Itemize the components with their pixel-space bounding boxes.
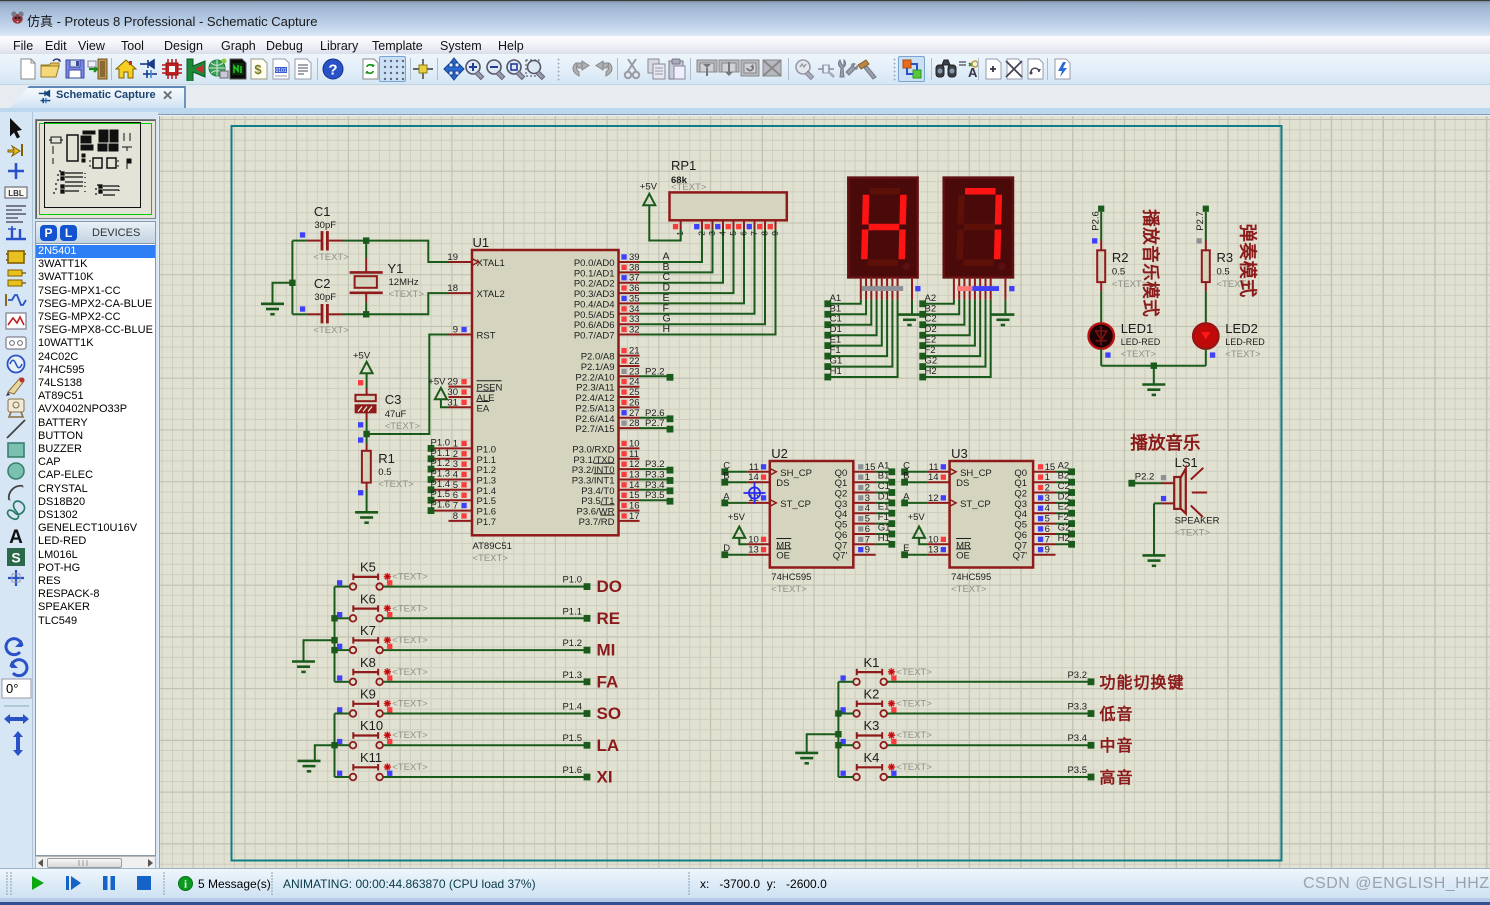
wire led ground rail (1101, 365, 1206, 367)
svg-text:Q0: Q0 (835, 468, 848, 479)
crystal Y1 (350, 258, 425, 303)
wire Q5 to F2 (1056, 523, 1072, 525)
node C2/Y1 junction (363, 311, 369, 317)
svg-text:<TEXT>: <TEXT> (385, 421, 421, 432)
svg-text:<TEXT>: <TEXT> (392, 667, 428, 678)
terminal P3.3 (key) (1067, 702, 1094, 717)
U2 pin 1 Q1 (835, 472, 876, 489)
svg-text:K6: K6 (360, 591, 376, 606)
wire K3 to P3.4 (887, 744, 1091, 746)
wire K1 to P3.2 (887, 681, 1091, 683)
terminal B2 (919, 303, 936, 317)
svg-text:LED-RED: LED-RED (1121, 337, 1161, 347)
wire LED1 to ground rail (1100, 349, 1102, 366)
wire net F to RP1 (640, 229, 755, 314)
svg-text:<TEXT>: <TEXT> (473, 553, 509, 564)
wire K5 to bus (335, 586, 350, 588)
svg-text:3: 3 (707, 231, 717, 236)
svg-text:?: ? (328, 62, 337, 79)
svg-text:3: 3 (453, 459, 458, 470)
power +5V U2 MR (728, 512, 746, 538)
terminal P1.3 (428, 469, 450, 483)
svg-text:P3.4/T0: P3.4/T0 (581, 486, 614, 497)
terminal D2 (U3) (1058, 491, 1075, 506)
svg-text:12: 12 (928, 493, 939, 504)
svg-text:A: A (903, 491, 910, 502)
svg-text:10: 10 (629, 438, 640, 449)
svg-text:OE: OE (776, 551, 790, 562)
svg-text:30pF: 30pF (314, 220, 336, 231)
svg-text:P3.5/T1: P3.5/T1 (581, 496, 614, 507)
svg-text:10: 10 (748, 534, 759, 545)
terminal P3.2 (key) (1067, 670, 1094, 685)
display D1 common cathode pin (911, 277, 913, 299)
svg-text:P2.4/A12: P2.4/A12 (575, 393, 614, 404)
svg-text:14: 14 (629, 480, 640, 491)
svg-text:C1: C1 (314, 204, 331, 219)
svg-text:G1: G1 (830, 356, 843, 367)
U1 pin 31 EA (447, 397, 489, 414)
terminal A2 (U3) (1058, 460, 1075, 475)
terminal A1 (824, 293, 841, 307)
U1 pin 7 P1.6 (434, 501, 496, 518)
svg-text:DO: DO (597, 577, 623, 596)
U1 pin 28 P2.7/A15 (575, 418, 639, 435)
terminal B (U2) (721, 471, 729, 486)
svg-text:U2: U2 (771, 446, 788, 461)
svg-text:RP1: RP1 (671, 158, 696, 173)
svg-text:F2: F2 (925, 345, 936, 356)
svg-text:<TEXT>: <TEXT> (392, 730, 428, 741)
wire terminal to resistor (1205, 212, 1207, 241)
svg-text:低音: 低音 (1099, 705, 1134, 724)
node led rail (1151, 363, 1157, 369)
terminal P2.2 (640, 366, 674, 380)
display D1 (showing H) (848, 178, 917, 278)
wire +5V to EA (441, 399, 449, 407)
svg-text:H: H (663, 323, 671, 335)
svg-text:C: C (903, 460, 910, 471)
svg-text:高音: 高音 (1100, 768, 1134, 787)
terminal G1 (824, 356, 842, 370)
terminal H2 (U3) (1058, 533, 1075, 548)
U3 pin 6 Q6 (1014, 524, 1055, 541)
wire common to ground (1004, 300, 1006, 315)
svg-text:0.5: 0.5 (378, 467, 391, 478)
wire (905, 481, 928, 483)
display D2 pin H (990, 277, 992, 299)
svg-text:14: 14 (928, 472, 939, 483)
svg-text:P1.4: P1.4 (477, 486, 497, 497)
wire C3 to R1 (366, 420, 368, 444)
svg-text:0.5: 0.5 (1217, 267, 1230, 278)
terminal F1 (824, 345, 840, 359)
terminal B1 (824, 303, 841, 317)
wire K8 to P1.3 (383, 681, 587, 683)
svg-text:Q7: Q7 (1014, 540, 1027, 551)
svg-text:9: 9 (453, 325, 458, 336)
U3 pin 11 SH_CP (928, 462, 992, 479)
wire R2 to LED1 (1100, 291, 1102, 323)
wire bus2 to ground (315, 745, 335, 761)
terminal B (U3) (901, 471, 909, 486)
U3 pin 13 OE (928, 545, 972, 562)
wire R1 to ground (366, 490, 368, 513)
display D2 (showing 7) (944, 178, 1013, 278)
svg-text:P1.0: P1.0 (562, 575, 582, 586)
status bar (0, 868, 1490, 898)
wire Q6 to G2 (1056, 533, 1072, 535)
wire LED2 to ground rail (1205, 349, 1207, 366)
svg-text:C: C (723, 460, 730, 471)
RP1 pin 1 (673, 220, 685, 235)
svg-text:P1.6: P1.6 (562, 765, 582, 776)
svg-text:5: 5 (865, 514, 870, 525)
U3 pin 2 Q2 (1014, 483, 1055, 500)
U1 pin 35 P0.4/AD4 (574, 292, 670, 311)
svg-text:F1: F1 (878, 512, 889, 523)
cursor crosshair (744, 482, 766, 504)
svg-text:P3.7/RD: P3.7/RD (579, 517, 615, 528)
display D2 pin D (969, 277, 971, 299)
wire +5V to MR (739, 538, 748, 544)
U1 pin 2 P1.1 (434, 449, 496, 466)
svg-text:Q4: Q4 (1014, 509, 1027, 520)
U1 pin 37 P0.2/AD2 (574, 271, 671, 290)
wire A1 (828, 300, 861, 304)
menu bar (0, 36, 1490, 54)
wire to osc ground (273, 283, 293, 304)
U3 pin 7 Q7 (1014, 534, 1055, 551)
wire (725, 502, 748, 504)
terminal P1.2 (428, 458, 450, 472)
svg-text:EA: EA (477, 403, 490, 414)
svg-text:i: i (184, 879, 187, 891)
svg-text:0101: 0101 (275, 68, 286, 74)
title bar (0, 0, 1490, 36)
svg-text:Y1: Y1 (388, 261, 404, 276)
RP1 pin 3 (705, 220, 717, 235)
display D2 common cathode pin (1004, 277, 1006, 299)
svg-text:P1.6: P1.6 (431, 500, 451, 511)
svg-text:DS: DS (956, 478, 969, 489)
svg-text:+5V: +5V (353, 351, 371, 362)
terminal H2 (919, 366, 936, 380)
U2 pin 6 Q6 (835, 524, 876, 541)
U3 pin 10 MR (928, 534, 972, 551)
wire Q3 to D2 (1056, 502, 1072, 504)
wire +5V to RP1 pin1 (649, 205, 680, 240)
svg-text:P1.4: P1.4 (562, 702, 582, 713)
U1 pin 17 P3.7/RD (579, 511, 640, 528)
U1 pin 39 P0.0/AD0 (574, 251, 670, 270)
display D2 pin A (953, 277, 955, 299)
wire D2 (923, 300, 970, 335)
svg-text:$: $ (254, 62, 262, 77)
svg-text:74HC595: 74HC595 (771, 572, 811, 583)
wire net E to RP1 (640, 229, 745, 303)
svg-text:+5V: +5V (908, 512, 926, 523)
U1 pin 30 ALE (447, 387, 494, 404)
svg-text:R2: R2 (1112, 250, 1129, 265)
wire K8 to bus (335, 681, 350, 683)
button K6 (337, 591, 428, 621)
node RST junction (363, 431, 369, 437)
wire net B to RP1 (640, 229, 713, 272)
wire Q6 to G1 (876, 533, 892, 535)
wire K9 to bus (335, 713, 350, 715)
tab bar (0, 85, 1490, 108)
node bus1 tap (331, 637, 337, 643)
display D1 pin G (891, 277, 893, 299)
wire Q1 to B2 (1056, 481, 1072, 483)
svg-text:R3: R3 (1217, 250, 1234, 265)
U2 pin 10 MR (748, 534, 792, 551)
resistor R3 (1202, 241, 1253, 292)
svg-text:<TEXT>: <TEXT> (378, 479, 414, 490)
wire K2 to P3.3 (887, 713, 1091, 715)
terminal D2 (919, 324, 936, 338)
terminal E2 (919, 335, 936, 349)
svg-text:P2.6: P2.6 (1091, 211, 1102, 231)
svg-text:P1.5: P1.5 (431, 489, 451, 500)
node C1/Y1 junction (363, 237, 369, 243)
button K1 (841, 655, 933, 685)
wire (905, 471, 928, 473)
svg-text:P0.4/AD4: P0.4/AD4 (574, 299, 615, 310)
terminal P2.6 (1091, 206, 1105, 231)
svg-text:Q5: Q5 (1014, 520, 1027, 531)
wire (905, 502, 928, 504)
display D1 pin E (881, 277, 883, 299)
svg-text:<TEXT>: <TEXT> (896, 762, 932, 773)
svg-text:0.5: 0.5 (1112, 267, 1125, 278)
U1 pin 16 P3.6/WR (576, 501, 639, 518)
svg-text:Q2: Q2 (835, 489, 848, 500)
display D1 pin D (876, 277, 878, 299)
U3 pin 15 Q0 (1014, 462, 1055, 479)
U1 pin 29 PSEN (447, 377, 502, 394)
svg-text:C3: C3 (385, 392, 402, 407)
U1 pin 11 P3.1/TXD (573, 449, 639, 466)
svg-text:MR: MR (956, 540, 971, 551)
svg-text:ST_CP: ST_CP (780, 499, 811, 510)
terminal G1 (U2) (878, 523, 895, 538)
resistor pack RP1 (670, 158, 787, 220)
svg-text:39: 39 (629, 252, 640, 263)
svg-text:功能切换键: 功能切换键 (1100, 673, 1185, 692)
U3 pin 3 Q3 (1014, 493, 1055, 510)
LED LED1 (1089, 321, 1161, 360)
svg-text:C1: C1 (830, 314, 842, 325)
wire +5V to C3 (366, 373, 368, 388)
U2 pin 12 ST_CP (748, 493, 811, 510)
svg-text:RE: RE (597, 609, 621, 628)
svg-text:23: 23 (629, 366, 640, 377)
svg-text:P2.0/A8: P2.0/A8 (581, 352, 615, 363)
svg-text:7: 7 (749, 231, 759, 236)
svg-text:37: 37 (629, 273, 640, 284)
ground speaker (1143, 555, 1166, 565)
wire Q2 to C2 (1056, 492, 1072, 494)
svg-text:播放音乐: 播放音乐 (1130, 433, 1200, 453)
terminal D (U2) (721, 543, 730, 558)
svg-text:+5V: +5V (428, 377, 446, 388)
wire Q3 to D1 (876, 502, 892, 504)
U1 pin 10 P3.0/RXD (572, 438, 639, 455)
wire C2 left (292, 313, 306, 315)
svg-text:13: 13 (748, 545, 759, 556)
RP1 pin 6 (736, 220, 748, 235)
wire K11 to P1.6 (383, 776, 587, 778)
node bus3 K2 (835, 710, 841, 716)
wire R3 to LED2 (1205, 291, 1207, 323)
svg-text:A1: A1 (878, 460, 890, 471)
svg-text:5: 5 (728, 231, 738, 236)
svg-text:E2: E2 (925, 335, 937, 346)
U2 pin 3 Q3 (835, 493, 876, 510)
svg-text:U1: U1 (473, 235, 490, 250)
wire C1 to XTAL1 (343, 241, 449, 262)
svg-text:6: 6 (739, 231, 749, 236)
U1 pin 23 P2.2/A10 (575, 366, 639, 383)
wire terminal to resistor (1100, 212, 1102, 241)
svg-text:+5V: +5V (728, 512, 746, 523)
svg-text:H1: H1 (878, 533, 890, 544)
terminal P2.7 (640, 418, 674, 432)
ground osc (261, 304, 284, 314)
svg-text:B: B (903, 471, 909, 482)
terminal A (U3) (901, 491, 910, 506)
svg-text:1: 1 (453, 438, 458, 449)
wire K10 to P1.5 (383, 744, 587, 746)
wire E2 (923, 300, 975, 346)
wire H2 (923, 300, 991, 377)
svg-text:A1: A1 (830, 293, 842, 304)
svg-text:29: 29 (447, 377, 458, 388)
wire net A to RP1 (640, 229, 703, 262)
svg-text:4: 4 (718, 231, 728, 236)
svg-text:K10: K10 (360, 718, 383, 733)
wire K2 to bus (838, 713, 853, 715)
wire (725, 554, 748, 556)
svg-text:31: 31 (447, 397, 458, 408)
svg-text:P1.0: P1.0 (477, 444, 497, 455)
svg-text:P1.1: P1.1 (562, 606, 582, 617)
svg-text:P1.3: P1.3 (562, 670, 582, 681)
svg-text:P1.0: P1.0 (431, 437, 451, 448)
speaker LS1 (1161, 455, 1220, 539)
svg-text:MR: MR (776, 540, 791, 551)
svg-text:P3.2/INT0: P3.2/INT0 (572, 465, 615, 476)
terminal P3.5 (640, 490, 674, 504)
svg-text:K11: K11 (360, 750, 382, 765)
svg-text:LED2: LED2 (1225, 321, 1258, 336)
svg-text:Q2: Q2 (1014, 489, 1027, 500)
svg-text:P1.2: P1.2 (431, 458, 451, 469)
capacitor C2 (300, 276, 349, 336)
button K11 (337, 750, 428, 780)
svg-text:<TEXT>: <TEXT> (1175, 528, 1211, 539)
svg-text:K5: K5 (360, 560, 376, 575)
svg-text:LBL: LBL (8, 189, 24, 198)
terminal A1 (U2) (878, 460, 895, 475)
svg-text:P0.5/AD5: P0.5/AD5 (574, 310, 615, 321)
U1 pin 3 P1.2 (434, 459, 496, 476)
wire Q0 to A1 (876, 471, 892, 473)
svg-text:<TEXT>: <TEXT> (392, 699, 428, 710)
svg-text:<TEXT>: <TEXT> (896, 699, 932, 710)
svg-text:播放音乐模式: 播放音乐模式 (1141, 209, 1161, 317)
svg-text:LED1: LED1 (1121, 321, 1154, 336)
terminal E (U3) (901, 543, 909, 558)
button K10 (337, 718, 428, 748)
svg-text:XTAL1: XTAL1 (477, 258, 505, 269)
wire K7 to bus (335, 649, 350, 651)
wire K9 to P1.4 (383, 713, 587, 715)
svg-text:P1.7: P1.7 (477, 517, 497, 528)
svg-text:A2: A2 (1058, 460, 1070, 471)
svg-text:<TEXT>: <TEXT> (951, 584, 987, 595)
wire Q7 to H1 (876, 543, 892, 545)
svg-text:ST_CP: ST_CP (960, 499, 991, 510)
wire (725, 481, 748, 483)
terminal P1.1 (key) (562, 606, 590, 621)
svg-text:C2: C2 (1058, 481, 1070, 492)
U1 pin 5 P1.4 (434, 480, 496, 497)
node bus2 K10 (331, 742, 337, 748)
svg-text:P3.2: P3.2 (1067, 670, 1087, 681)
svg-text:17: 17 (629, 511, 640, 522)
svg-text:P0.7/AD7: P0.7/AD7 (574, 331, 615, 342)
svg-text:25: 25 (629, 387, 640, 398)
svg-text:<TEXT>: <TEXT> (389, 289, 425, 300)
svg-text:11: 11 (749, 462, 759, 473)
svg-text:<TEXT>: <TEXT> (392, 635, 428, 646)
svg-text:B1: B1 (830, 303, 842, 314)
svg-text:P0.0/AD0: P0.0/AD0 (574, 258, 615, 269)
svg-text:E1: E1 (830, 335, 842, 346)
wire rail to ground (1153, 366, 1155, 385)
ground R1 (355, 512, 378, 522)
terminal P1.0 (key) (562, 575, 590, 590)
wire Q7 to H2 (1056, 543, 1072, 545)
resistor R2 (1097, 241, 1148, 292)
svg-text:+5V: +5V (640, 182, 658, 193)
svg-text:H2: H2 (1058, 533, 1070, 544)
svg-text:G2: G2 (925, 356, 938, 367)
svg-text:R1: R1 (378, 451, 395, 466)
LED LED2 (1193, 321, 1265, 360)
svg-text:<TEXT>: <TEXT> (392, 572, 428, 583)
svg-text:C2: C2 (314, 276, 331, 291)
wire Y1 top (365, 241, 367, 258)
wire K7 to P1.2 (383, 649, 587, 651)
U1 pin 27 P2.6/A14 (575, 408, 639, 425)
svg-text:P1.5: P1.5 (562, 733, 582, 744)
U1 pin 34 P0.5/AD5 (574, 302, 669, 321)
U2 pin 9 Q7' (833, 545, 876, 562)
svg-text:F1: F1 (830, 345, 841, 356)
button K4 (841, 750, 933, 780)
U1 pin 25 P2.4/A12 (575, 387, 639, 404)
svg-text:14: 14 (748, 472, 759, 483)
ground keys 1 (292, 662, 315, 672)
display D1 pin H (897, 277, 899, 299)
terminal E2 (U3) (1058, 502, 1075, 517)
node bus1 K6 (331, 615, 337, 621)
terminal G2 (U3) (1058, 523, 1075, 538)
